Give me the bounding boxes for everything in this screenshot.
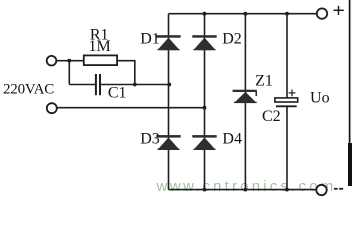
wire AC input bottom to bridge right leg bbox=[57, 107, 206, 109]
wire AC input top (to R1C1 left node) bbox=[56, 60, 84, 62]
wire left bridge leg (D1/D3 branch) bbox=[168, 14, 170, 190]
node right R1C1 junction bbox=[133, 83, 137, 87]
svg-text:D3: D3 bbox=[140, 130, 160, 147]
terminal output positive bbox=[317, 8, 327, 18]
plus symbol at output bbox=[334, 6, 344, 15]
svg-text:1M: 1M bbox=[88, 38, 110, 55]
wire C1 left lead bbox=[69, 84, 95, 86]
node top rail C2 bbox=[285, 12, 289, 16]
node top rail D2 bbox=[203, 12, 207, 16]
wire zener Z1 leg bbox=[244, 14, 246, 190]
terminal AC input bottom bbox=[47, 103, 57, 113]
node AC1 to left leg bbox=[167, 83, 171, 87]
diode D2 bbox=[192, 35, 216, 50]
C2 polarity + mark bbox=[289, 90, 296, 97]
wire C1 right lead to bridge left leg bbox=[101, 84, 170, 86]
node bottom rail Z1 bbox=[244, 188, 248, 192]
node bottom rail D4 bbox=[203, 188, 207, 192]
wire R1 right lead bbox=[117, 61, 135, 85]
diode D3 bbox=[156, 135, 180, 150]
wire C2 leg upper bbox=[286, 14, 288, 99]
minus symbol at output bbox=[334, 188, 343, 190]
node top rail Z1 bbox=[244, 12, 248, 16]
wire right bridge leg (D2/D4 branch) bbox=[204, 14, 206, 190]
svg-text:D4: D4 bbox=[222, 130, 242, 147]
svg-text:C2: C2 bbox=[262, 108, 281, 125]
resistor R1 bbox=[84, 55, 117, 65]
svg-text:C1: C1 bbox=[108, 84, 127, 101]
wire top rail (+ bus) bbox=[169, 13, 317, 15]
svg-text:Z1: Z1 bbox=[255, 72, 273, 89]
svg-text:D2: D2 bbox=[222, 30, 242, 47]
capacitor C1 bbox=[96, 74, 100, 95]
svg-text:Uo: Uo bbox=[310, 90, 330, 107]
node AC2 to right leg bbox=[203, 106, 207, 110]
terminal output negative bbox=[316, 185, 326, 195]
diode D1 bbox=[156, 35, 180, 50]
terminal AC input top bbox=[47, 56, 57, 66]
wire left node drop to C1 branch bbox=[68, 61, 70, 85]
wire C2 leg lower bbox=[286, 106, 288, 190]
node bottom rail C2 bbox=[285, 188, 289, 192]
wire bottom rail (- bus) bbox=[169, 189, 317, 191]
diode D4 bbox=[192, 135, 216, 150]
zener diode Z1 bbox=[233, 90, 258, 103]
svg-text:220VAC: 220VAC bbox=[3, 82, 54, 98]
svg-text:D1: D1 bbox=[140, 30, 160, 47]
capacitor C2 (polarized) bbox=[275, 98, 298, 102]
node left R1C1 junction bbox=[67, 59, 71, 63]
